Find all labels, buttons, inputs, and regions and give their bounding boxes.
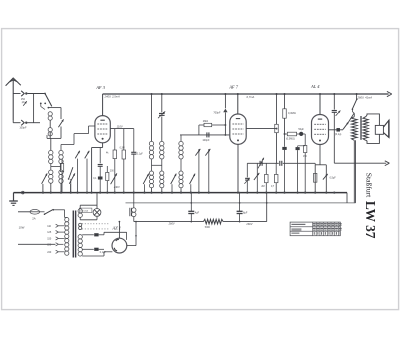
wire AF3 trim b leg <box>86 159 88 193</box>
wire AF3 anode up <box>102 94 104 116</box>
wire AF3 screen leg <box>99 148 101 164</box>
bus open terminal <box>21 191 24 194</box>
capacitor k blob <box>296 147 300 150</box>
wire AL4 anode up <box>319 94 321 115</box>
second bus line <box>126 202 356 204</box>
ground bus corner <box>13 193 15 201</box>
wire top to diode cap <box>224 94 226 108</box>
heater dotted lines <box>82 223 110 225</box>
heater winding top <box>78 209 82 213</box>
wire cathode leg <box>91 148 93 193</box>
coil L1 antenna <box>48 112 52 116</box>
main ground bus <box>14 192 348 194</box>
wire IFT1a top <box>151 94 153 141</box>
supply line arrow <box>387 91 392 96</box>
diode arrow loop <box>323 174 328 180</box>
capacitor trimmer antenna <box>23 101 27 106</box>
capacitor C-an <box>133 129 135 153</box>
wire AF3 plate right <box>110 128 134 130</box>
wire tone leg upper <box>333 94 335 110</box>
wire AF3 cathode down <box>102 143 104 148</box>
wire az loop bottom <box>99 248 104 250</box>
svg-text:110V: 110V <box>117 124 123 128</box>
wire AZ1 right <box>127 245 136 247</box>
svg-text:260V: 260V <box>245 222 252 226</box>
wire det leg <box>246 163 248 177</box>
label box dial lamp <box>79 208 92 213</box>
svg-text:110: 110 <box>47 225 51 228</box>
capacitor avc blob <box>282 147 286 150</box>
capacitor block 0.1uF <box>98 177 103 180</box>
HT winding <box>78 235 82 239</box>
mains lead top <box>18 211 30 213</box>
svg-text:AF 7: AF 7 <box>228 85 239 90</box>
output transformer primary <box>352 117 358 141</box>
filter resistor <box>203 219 223 224</box>
dial lamp <box>93 209 101 217</box>
wire to OT primary <box>351 109 353 111</box>
parts table <box>290 222 340 236</box>
wire det leg b <box>246 180 248 192</box>
wire IFT1b top upper <box>161 94 163 112</box>
wire avc down <box>284 134 286 147</box>
capacitor tone trimmer <box>332 110 337 112</box>
fuse <box>30 210 40 215</box>
svg-text:2MΩ: 2MΩ <box>203 120 208 123</box>
tone line arrow <box>385 161 390 166</box>
svg-text:(0,5MΩ): (0,5MΩ) <box>286 137 295 140</box>
capacitor 700pF diamond <box>223 109 227 113</box>
wire HT top tap <box>82 234 94 236</box>
tube AZ1 rectifier <box>112 238 127 253</box>
resistor R6 <box>265 163 267 174</box>
speaker magnet box <box>375 125 383 134</box>
svg-text:Staßfurt: Staßfurt <box>365 173 374 198</box>
wire AF7 plate right <box>246 128 276 130</box>
tube AF3 <box>95 116 110 143</box>
coil IFT1b primary <box>160 141 164 145</box>
junction dots top line <box>150 93 152 95</box>
pot arrow <box>111 173 117 184</box>
svg-text:4V 0,1A: 4V 0,1A <box>80 210 88 213</box>
wire between L1 L2 <box>49 120 51 127</box>
primary taps <box>59 225 64 227</box>
resistor R-k small <box>60 163 63 171</box>
grid resistor row <box>285 133 288 135</box>
capacitor az top <box>94 233 98 236</box>
svg-text:700pF: 700pF <box>213 112 221 115</box>
choke coil <box>133 193 135 208</box>
tube AF7 <box>230 114 246 144</box>
svg-text:0,3M: 0,3M <box>120 148 125 150</box>
coil L3a <box>49 150 53 154</box>
transformer primary <box>65 218 69 222</box>
tap stub lines <box>64 225 65 227</box>
svg-text:2A: 2A <box>32 216 36 220</box>
coil IFT2 primary <box>179 141 183 145</box>
wire AF3 grid left <box>89 125 96 127</box>
wire AL4 grid loop <box>314 163 316 165</box>
capacitor 0.1u square <box>336 128 340 132</box>
resistor 2M grid leak <box>198 125 200 135</box>
wire tone leg lower <box>333 112 335 163</box>
wire cathode col <box>304 134 306 145</box>
resistor R4 0.3M <box>284 94 286 109</box>
heater winding mid <box>79 223 82 226</box>
mains switch <box>45 209 54 214</box>
wire az loop top <box>99 234 104 236</box>
svg-text:LW 37: LW 37 <box>363 201 378 239</box>
wire antenna down <box>12 120 14 123</box>
svg-text:100pF: 100pF <box>19 127 27 130</box>
HT line3 b <box>223 221 267 223</box>
transformer core <box>72 211 74 258</box>
trimmer arrow right <box>69 173 75 183</box>
capacitor screen bypass <box>98 164 103 166</box>
wire coupling line <box>247 162 278 164</box>
svg-text:240V, 2,5mA: 240V, 2,5mA <box>104 95 121 99</box>
svg-text:240: 240 <box>47 251 52 254</box>
antenna <box>6 78 21 120</box>
capacitor 0.1 coupling <box>259 161 261 166</box>
wire IFT2 top to grid line <box>180 135 182 141</box>
wire L3b to bus <box>50 183 52 192</box>
svg-text:220: 220 <box>47 243 52 246</box>
band switch blade 1 <box>45 94 52 107</box>
coil L3b <box>49 170 53 174</box>
svg-text:50µF: 50µF <box>298 128 304 131</box>
wire trimmer right leg <box>70 184 72 193</box>
capacitor 8uF <box>239 193 241 212</box>
svg-text:10W: 10W <box>19 226 25 230</box>
coil IFT1b secondary <box>160 171 164 175</box>
wire trimmer left leg <box>42 184 44 193</box>
wire OT primary down <box>353 140 355 203</box>
output transformer secondary <box>363 117 368 141</box>
wire AF7 cathode <box>237 144 239 192</box>
svg-text:0,5µF: 0,5µF <box>330 177 337 180</box>
svg-text:100pF: 100pF <box>202 139 210 142</box>
band switch contacts <box>40 103 42 105</box>
arrow det a <box>195 149 200 156</box>
trimmer IFT1 left <box>143 174 149 184</box>
variable capacitor arrow C-ant <box>58 119 63 127</box>
tube AL4 <box>312 115 329 145</box>
wire antenna to socket <box>13 93 20 95</box>
svg-text:260V: 260V <box>168 222 175 226</box>
capacitor series IFT <box>159 112 165 114</box>
svg-text:8µF: 8µF <box>243 211 248 214</box>
capacitor az bottom <box>94 248 98 251</box>
wire fieldcoil return <box>355 140 357 203</box>
trimmer arrow AF3 a <box>75 151 80 159</box>
resistor R5 <box>274 174 278 182</box>
coil L4a <box>59 150 63 154</box>
HT line3 <box>134 221 204 223</box>
svg-text:(0,1µ): (0,1µ) <box>335 133 341 136</box>
resistor R1 <box>114 129 116 150</box>
wire earth horizontal <box>13 122 20 124</box>
wire L3 link <box>50 164 52 170</box>
wire IFT1b top lower <box>161 116 163 141</box>
bus link right <box>346 193 348 203</box>
capacitor coupling 2 <box>279 161 281 166</box>
capacitor 4uF <box>190 193 192 212</box>
wire AL4 bottom <box>319 145 321 165</box>
svg-text:0,3MΩ: 0,3MΩ <box>288 111 296 115</box>
coil IFT1a secondary <box>149 171 153 175</box>
capacitor 100pF grid <box>206 132 208 137</box>
wire HT bottom tap <box>82 248 94 250</box>
coil L2 antenna <box>48 128 52 132</box>
earth socket connector <box>21 120 24 125</box>
wire tone horizontal <box>334 162 386 164</box>
wire L4a top <box>60 145 62 151</box>
svg-text:AF 3: AF 3 <box>95 85 106 90</box>
svg-text:125: 125 <box>47 231 52 234</box>
wire AF7 anode up <box>237 94 239 114</box>
coil IFT1a primary <box>149 141 153 145</box>
resistor R-pot 200 <box>106 172 109 180</box>
wire IFT1a bus <box>151 188 153 193</box>
wire grid line AF7 <box>180 134 230 136</box>
capacitor 50uF blob <box>299 132 303 136</box>
switch blade S4 <box>69 167 73 179</box>
wire IFT1b bus <box>161 188 163 193</box>
wire L4b to bus <box>60 183 62 192</box>
wire diode cap down <box>224 112 226 134</box>
wire varcap vertical <box>60 108 62 120</box>
wire AL4 anode right <box>329 129 344 131</box>
trimmer IFT2 <box>190 174 196 184</box>
wire HT riser <box>266 193 268 222</box>
wire switch box top <box>48 107 61 109</box>
svg-text:2M: 2M <box>261 186 264 188</box>
wire AZ1 cathode up <box>118 222 120 239</box>
arrow det b <box>205 149 210 156</box>
ground symbol <box>9 200 18 202</box>
wire box bottom <box>47 137 61 139</box>
mains lead bottom <box>18 243 55 245</box>
trimmer IFT1 mid <box>171 174 177 184</box>
wire IFT1 link <box>151 159 153 171</box>
svg-text:5000: 5000 <box>205 227 211 229</box>
resistor R7 50 <box>314 173 317 182</box>
wire L-bank feed <box>50 138 52 150</box>
trimmer arrow left <box>42 173 48 183</box>
antenna socket connector <box>21 91 24 96</box>
svg-text:150: 150 <box>47 238 52 241</box>
wire IFT2 link <box>180 159 182 171</box>
supply line 240V <box>103 93 389 95</box>
wire socket link vertical <box>33 94 35 123</box>
wire AF3 trim a leg <box>77 159 79 193</box>
wire to primary top <box>59 209 65 211</box>
wire avc to bus <box>284 150 286 193</box>
trimmer arrow AF3 b <box>85 151 90 159</box>
wire coupling line b <box>283 162 315 164</box>
svg-text:AL 4: AL 4 <box>310 84 320 89</box>
speaker cone <box>383 120 389 137</box>
coil IFT2 secondary <box>179 171 183 175</box>
capacitor det small <box>245 177 249 179</box>
svg-text:260V, 41mA: 260V, 41mA <box>357 95 373 99</box>
output transformer core <box>360 116 362 140</box>
svg-text:4µF: 4µF <box>195 211 200 214</box>
wire vol leg <box>256 163 258 192</box>
bus junction dots <box>42 191 44 193</box>
wire IFT2 bus <box>180 188 182 193</box>
resistor R2 <box>123 129 125 150</box>
resistor R8 150 <box>304 145 307 152</box>
wire screen leg lower <box>99 167 101 193</box>
coil L4b <box>59 170 63 174</box>
resistor R3 plate load <box>276 94 278 124</box>
svg-text:0,7mA: 0,7mA <box>247 95 255 99</box>
svg-text:0,1µF: 0,1µF <box>137 154 144 156</box>
connector hook AL4 <box>343 122 349 129</box>
switch speaker line <box>356 94 358 99</box>
speaker wiring loop <box>366 114 380 143</box>
lamp circuit wires <box>79 205 81 209</box>
